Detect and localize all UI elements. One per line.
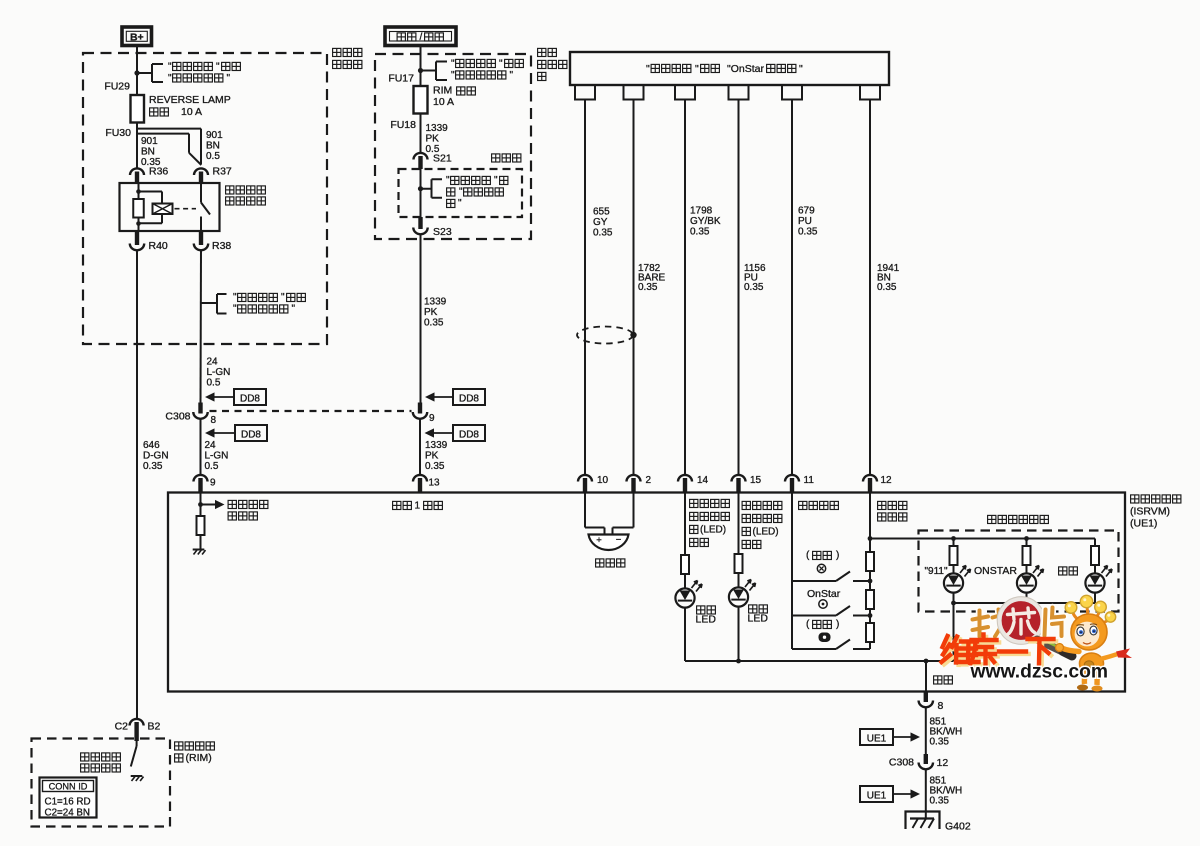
connector pin 9 at ISRVM — [194, 475, 208, 482]
backlight LED cathode bus — [954, 602, 1096, 604]
ground G402 symbol — [906, 812, 940, 830]
relay internal resistor — [133, 199, 144, 218]
svg-text:R36: R36 — [149, 166, 168, 178]
svg-text:901: 901 — [141, 136, 158, 147]
wire from OnStar stub 3 down — [684, 100, 686, 476]
svg-text:ONSTAR: ONSTAR — [974, 565, 1017, 577]
wire from OnStar stub 5 down — [791, 100, 793, 476]
label keypad signal — [799, 501, 807, 509]
connector pin 10 at ISRVM top — [578, 475, 592, 482]
svg-text:DD8: DD8 — [459, 394, 479, 405]
svg-text:0.5: 0.5 — [206, 151, 220, 162]
svg-text:": " — [458, 198, 462, 209]
C308 dashed connector line — [210, 410, 412, 412]
wire 1339 PK from S23 down to C308 pin 9 — [420, 234, 422, 403]
svg-text:S23: S23 — [433, 226, 452, 238]
label ISRVM module — [1131, 495, 1139, 503]
svg-text:PK: PK — [426, 134, 440, 145]
svg-text:0.35: 0.35 — [593, 228, 613, 239]
svg-text:R40: R40 — [149, 240, 168, 252]
emergency button icon — [817, 564, 825, 572]
backlight supply bus — [870, 538, 1095, 540]
svg-text:0.35: 0.35 — [744, 282, 764, 293]
svg-text:11: 11 — [804, 475, 815, 486]
svg-text:1339: 1339 — [424, 297, 447, 308]
UE1 reference box upper with arrow — [860, 729, 893, 745]
svg-text:0.35: 0.35 — [425, 461, 445, 472]
OnStar schematic reference box — [570, 52, 889, 85]
svg-text:PK: PK — [424, 307, 438, 318]
svg-text:0.35: 0.35 — [638, 282, 658, 293]
svg-text:"OnStar: "OnStar — [727, 63, 764, 75]
wire from OnStar stub 6 down — [869, 100, 871, 476]
wire from OnStar stub 1 down — [584, 100, 586, 476]
DD8 reference box upper-right with arrow — [453, 389, 485, 405]
label fuse box right rear — [538, 48, 546, 56]
svg-text:15: 15 — [750, 475, 762, 486]
UE1 reference box lower with arrow — [860, 786, 893, 802]
label button backlight illumination — [988, 515, 996, 523]
DD8 reference box lower-left with arrow — [235, 425, 267, 441]
emergency switch branch — [792, 580, 836, 582]
svg-text:GY: GY — [593, 217, 608, 228]
svg-text:C2=24 BN: C2=24 BN — [45, 808, 90, 819]
svg-text:LED: LED — [748, 613, 769, 625]
label green LED — [697, 606, 705, 614]
connector pin 12 at ISRVM top — [863, 475, 877, 482]
svg-text:": " — [233, 292, 237, 303]
inline connector dashed box — [399, 169, 523, 217]
green LED branch from pin 14 — [684, 493, 686, 555]
connector pin 13 at ISRVM — [413, 475, 427, 482]
svg-text:": " — [695, 63, 699, 75]
svg-text:(ISRVM): (ISRVM) — [1130, 506, 1170, 518]
svg-text:G402: G402 — [945, 821, 971, 833]
svg-text:0.35: 0.35 — [143, 461, 163, 472]
svg-text:DD8: DD8 — [240, 394, 260, 405]
relay mechanical link dashed — [175, 208, 197, 210]
label phone (dianhua) — [1059, 567, 1067, 575]
svg-text:): ) — [836, 550, 839, 561]
svg-text:DD8: DD8 — [241, 430, 261, 441]
power node RUN/START box — [385, 27, 456, 46]
label ground (datie) — [934, 676, 942, 684]
svg-text:1339: 1339 — [425, 440, 448, 451]
inline connector C308 pin 8 — [198, 403, 202, 414]
svg-text:": " — [216, 62, 220, 73]
label rear integration module RIM — [175, 742, 183, 750]
svg-text:LED: LED — [696, 614, 717, 626]
svg-text:REVERSE LAMP: REVERSE LAMP — [149, 94, 231, 106]
svg-text:": " — [227, 73, 231, 84]
fuse FU29/FU30 REVERSE LAMP 10A — [131, 95, 145, 123]
svg-text:": " — [451, 70, 455, 81]
svg-text:FU29: FU29 — [104, 81, 130, 93]
svg-text:12: 12 — [881, 475, 893, 486]
svg-text:1: 1 — [415, 500, 421, 511]
svg-text:/: / — [420, 32, 423, 43]
fuse box right-rear dashed outline — [375, 54, 531, 239]
svg-text:": " — [510, 70, 514, 81]
ground wire exiting ISRVM — [925, 661, 927, 697]
svg-text:(LED): (LED) — [700, 524, 726, 535]
svg-text:FU18: FU18 — [390, 119, 416, 131]
svg-text:+: + — [596, 535, 602, 546]
svg-text:": " — [494, 175, 498, 186]
svg-text:": " — [281, 292, 285, 303]
branch bracket to power distribution (connector) — [421, 179, 443, 198]
green LED symbol — [675, 588, 694, 607]
svg-text:2: 2 — [646, 475, 652, 486]
svg-text:0.35: 0.35 — [690, 227, 710, 238]
watermark magnifier handle — [1037, 640, 1072, 657]
watermark find-chip text (zhao) — [973, 610, 1010, 637]
svg-text:RIM: RIM — [433, 85, 452, 97]
keypad supply wire from pin 12 with dropping resistors — [869, 493, 871, 552]
call button icon — [819, 633, 831, 643]
svg-text:C308: C308 — [889, 757, 914, 769]
svg-text:": " — [799, 63, 803, 75]
svg-text:0.35: 0.35 — [424, 318, 444, 329]
svg-text:8: 8 — [211, 415, 217, 426]
svg-text:1798: 1798 — [690, 206, 713, 217]
svg-text:13: 13 — [429, 478, 441, 489]
svg-text:0.35: 0.35 — [798, 227, 818, 238]
OnStar switch branch — [792, 615, 836, 617]
svg-text:9: 9 — [210, 478, 216, 489]
svg-text:10 A: 10 A — [181, 106, 202, 118]
svg-text:FU17: FU17 — [388, 73, 414, 85]
label red LED — [749, 605, 757, 613]
svg-text:0.35: 0.35 — [930, 796, 950, 807]
fuse FU17/FU18 RIM 10A — [414, 86, 428, 114]
connector pin R36 — [130, 168, 144, 175]
svg-text:PU: PU — [798, 216, 812, 227]
power node B+ box — [122, 27, 152, 46]
svg-text:0.5: 0.5 — [205, 461, 219, 472]
wire FU18 to S21 — [420, 114, 422, 154]
wire through connector box — [420, 169, 422, 219]
label keypad green LED signal — [690, 499, 698, 507]
svg-text:C308: C308 — [165, 411, 190, 423]
svg-text:": " — [446, 175, 450, 186]
svg-text:UE1: UE1 — [867, 734, 887, 745]
svg-text:": " — [451, 59, 455, 70]
backlight LED branch 2 — [1024, 536, 1029, 541]
internal resistor to ground — [197, 516, 205, 535]
connector pin R37 — [194, 168, 208, 175]
svg-text:L-GN: L-GN — [207, 367, 231, 378]
RIM dashed box — [32, 739, 171, 827]
RIM internal switch to ground — [136, 741, 138, 746]
watermark find-chip text (pian) — [1045, 608, 1065, 637]
watermark mascot robot — [1056, 595, 1133, 691]
label ignition 1 voltage — [393, 501, 401, 509]
wire 646 D-GN from R40 down to C2 — [136, 250, 138, 719]
svg-text:": " — [292, 304, 296, 315]
connector stub 1 under OnStar box — [575, 85, 595, 100]
label microphone — [596, 559, 604, 567]
svg-text:BN: BN — [141, 147, 155, 158]
branch bracket to power distribution diagram (R38 wire) — [201, 294, 227, 314]
wire from FU30 splitting to R36 and R37 — [136, 123, 138, 169]
branch bracket to power distribution diagram — [137, 64, 163, 82]
ground bus inside ISRVM — [685, 660, 954, 662]
svg-text:(RIM): (RIM) — [186, 752, 212, 764]
connector pin 2 at ISRVM top — [627, 475, 641, 482]
reverse lamp supply voltage branch inside box — [200, 493, 202, 516]
svg-text:12: 12 — [937, 757, 949, 769]
911 LED wire down to ground bus — [953, 603, 955, 661]
connector stub 6 under OnStar box — [860, 85, 880, 100]
svg-text:24: 24 — [207, 357, 219, 368]
relay switch contact — [200, 184, 202, 203]
DD8 reference box upper-left with arrow — [234, 389, 266, 405]
svg-text:679: 679 — [798, 206, 815, 217]
svg-text:R37: R37 — [213, 166, 232, 178]
svg-text:9: 9 — [429, 413, 435, 424]
svg-text:C2: C2 — [115, 721, 129, 733]
svg-text:C1=16 RD: C1=16 RD — [45, 797, 91, 808]
svg-text:S21: S21 — [433, 153, 452, 165]
label reverse-lamp micro relay — [226, 186, 234, 194]
svg-text:B2: B2 — [148, 721, 161, 733]
inline connector C308 pin 12 — [924, 754, 928, 764]
label reverse lamp relay control — [81, 753, 89, 761]
call switch branch — [792, 648, 836, 650]
junction on B+ wire — [134, 70, 139, 75]
relay coil symbol — [153, 204, 173, 215]
svg-text:www.dzsc.com: www.dzsc.com — [970, 662, 1109, 683]
connector S23 — [418, 217, 422, 229]
svg-text:0.5: 0.5 — [207, 378, 221, 389]
svg-text:R38: R38 — [212, 240, 231, 252]
microphone symbol — [589, 535, 629, 550]
connector stub 2 under OnStar box — [624, 85, 644, 100]
svg-text:UE1: UE1 — [867, 791, 887, 802]
svg-text:): ) — [836, 619, 839, 630]
svg-text:CONN ID: CONN ID — [49, 782, 88, 792]
relay internal wire and junctions — [138, 184, 140, 200]
svg-text:GY/BK: GY/BK — [690, 216, 721, 227]
CONN ID table — [40, 778, 97, 818]
red LED branch from pin 15 — [738, 493, 740, 554]
label reverse lamp supply voltage — [228, 500, 236, 508]
wire from OnStar stub 2 down — [633, 100, 635, 476]
svg-text:(LED): (LED) — [753, 526, 779, 537]
keypad signal bus from pin 11 — [791, 493, 793, 649]
label fuse box left rear — [333, 48, 341, 56]
connector pin 11 at ISRVM top — [785, 475, 799, 482]
svg-text:": " — [168, 62, 172, 73]
wire 851 BK/WH lower — [925, 769, 927, 819]
connector pin R38 — [199, 231, 203, 245]
branch bracket to power distribution (FU17) — [421, 62, 448, 81]
svg-text:901: 901 — [206, 130, 223, 141]
svg-text:0.35: 0.35 — [877, 282, 897, 293]
svg-text:BN: BN — [206, 141, 220, 152]
svg-text:24: 24 — [205, 440, 217, 451]
svg-text:10: 10 — [597, 475, 609, 486]
shield junction on bare wire — [630, 332, 636, 338]
svg-text:": " — [646, 63, 650, 75]
svg-text:−: − — [616, 535, 622, 546]
watermark magnifier with chip (xin) — [1000, 599, 1043, 642]
svg-text:1339: 1339 — [426, 123, 449, 134]
wire 24 L-GN from C308 to ISRVM pin 9 — [200, 419, 202, 476]
connector pin 8 below ISRVM — [924, 691, 928, 702]
wire 851 BK/WH upper — [925, 707, 927, 754]
backlight LED branch 1 — [951, 536, 956, 541]
connector stub 5 under OnStar box — [782, 85, 802, 100]
wire 24 L-GN from R38 down to C308 — [200, 250, 203, 404]
svg-text:655: 655 — [593, 207, 610, 218]
svg-text:0.35: 0.35 — [930, 737, 950, 748]
shield drain loop dashed ellipse — [577, 327, 633, 344]
connector pin 15 at ISRVM top — [732, 475, 746, 482]
wire from OnStar stub 4 down — [738, 100, 740, 476]
connector stub 4 under OnStar box — [729, 85, 749, 100]
svg-text:": " — [459, 187, 463, 198]
svg-text:": " — [168, 73, 172, 84]
svg-text:8: 8 — [938, 700, 944, 712]
inline connector C308 pin 9 — [418, 403, 422, 414]
connector pin R40 — [135, 231, 139, 245]
svg-text:10 A: 10 A — [433, 96, 454, 108]
label keypad supply voltage — [878, 501, 886, 509]
svg-text:": " — [499, 59, 503, 70]
red LED symbol — [729, 587, 748, 606]
wire RUN/START down to FU17 — [420, 46, 422, 87]
RIM ground symbol — [131, 775, 143, 777]
backlight LED branch 3 — [1094, 539, 1096, 547]
OnStar button icon — [819, 600, 827, 608]
reverse lamp micro relay box — [120, 183, 220, 231]
junction on RUN/START wire — [418, 68, 423, 73]
label connector (lianjieqi) — [492, 154, 500, 162]
svg-text:B+: B+ — [130, 32, 144, 44]
DD8 reference box lower-right with arrow — [453, 425, 485, 441]
relay coil loop wire — [139, 191, 163, 193]
svg-text:DD8: DD8 — [459, 430, 479, 441]
connector pin 14 at ISRVM top — [678, 475, 692, 482]
wire 1339 PK from C308 to ISRVM pin 13 — [419, 419, 421, 476]
svg-text:FU30: FU30 — [105, 127, 131, 139]
svg-text:D-GN: D-GN — [143, 451, 169, 462]
svg-text:L-GN: L-GN — [205, 451, 229, 462]
wire B+ down to fuse FU29 — [136, 46, 138, 95]
label keypad red LED signal — [742, 501, 750, 509]
junction inside connector box — [418, 186, 423, 191]
ISRVM inside rearview mirror module box — [168, 493, 1125, 692]
svg-text:"911": "911" — [925, 566, 948, 577]
internal ground symbol — [193, 549, 205, 551]
microphone wires from pins 10 and 2 — [584, 493, 586, 528]
svg-text:PK: PK — [425, 451, 439, 462]
watermark weiku-yixia red text — [942, 635, 1057, 666]
svg-text:646: 646 — [143, 440, 160, 451]
connector S21 — [414, 153, 428, 160]
connector stub 3 under OnStar box — [675, 85, 695, 100]
svg-text:14: 14 — [697, 475, 709, 486]
svg-text:": " — [233, 304, 237, 315]
svg-text:(UE1): (UE1) — [1130, 518, 1157, 530]
svg-text:OnStar: OnStar — [807, 588, 841, 600]
fuse box - left rear dashed outline — [83, 53, 327, 344]
button backlight dashed box — [919, 531, 1119, 612]
